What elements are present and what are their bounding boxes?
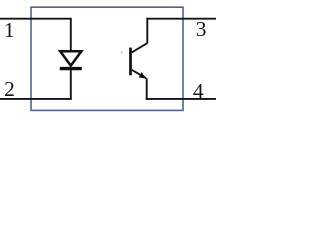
svg-text:1: 1 [4, 18, 15, 42]
wire cathode vertical [70, 69, 72, 99]
transistor Q1 collector diagonal [132, 43, 148, 52]
wire collector vertical [146, 18, 148, 44]
LED D1 triangle [60, 51, 81, 65]
wire pin3 horizontal [146, 18, 216, 20]
svg-text:3: 3 [196, 17, 207, 41]
transistor Q1 base bar [129, 48, 132, 76]
wire anode vertical [70, 19, 72, 52]
wire pin1 horizontal [0, 18, 72, 20]
LED D1 cathode bar [60, 67, 82, 70]
wire pin2 horizontal [0, 98, 72, 100]
wire emitter vertical [146, 78, 148, 100]
svg-text:2: 2 [4, 77, 15, 101]
component body outline (blue box) [31, 7, 183, 110]
transistor Q1 emitter arrowhead [139, 72, 147, 79]
optocoupler U1 schematic [0, 0, 216, 130]
wire pin4 horizontal [146, 98, 216, 100]
artifact dot near base [121, 52, 123, 54]
transistor Q1 emitter diagonal [132, 70, 146, 78]
